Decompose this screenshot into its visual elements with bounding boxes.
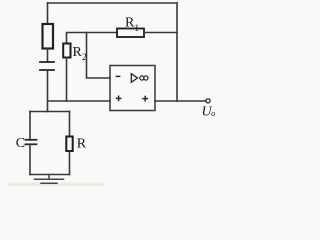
- op-amp plus mark (non-inverting, left): [116, 96, 122, 102]
- svg-text:C: C: [16, 136, 25, 151]
- wire: R2 top up and right to inverting node: [67, 33, 118, 44]
- op-amp plus mark (output side, right): [142, 96, 148, 102]
- wire: non-inverting input run: [48, 100, 111, 102]
- resistor (series, unlabeled): [43, 24, 54, 49]
- wire: R branch lower: [69, 151, 71, 175]
- svg-text:R: R: [77, 137, 87, 152]
- wire: output run to terminal: [155, 100, 206, 102]
- wire: right feedback column down to output node: [176, 3, 178, 101]
- resistor R2: [63, 44, 70, 58]
- ground: [35, 175, 64, 184]
- op-amp U1: [110, 66, 155, 111]
- wire: R2 bottom down to non-inverting run: [66, 58, 68, 102]
- op-amp infinity mark: [140, 76, 148, 80]
- faint scan smudge (bottom margin): [8, 183, 104, 187]
- op-amp gain symbol triangle: [131, 74, 137, 83]
- op-amp minus mark: [116, 75, 121, 77]
- wire: series capacitor down through +input node to tank top: [47, 70, 49, 112]
- wire: series resistor to series capacitor: [47, 49, 49, 63]
- wire: R1 right side to feedback column: [144, 32, 177, 34]
- capacitor C: [26, 140, 37, 145]
- wire: tank bottom run: [30, 174, 70, 176]
- resistor R: [66, 137, 72, 152]
- terminal Uo: [206, 99, 210, 103]
- wire: tank top run: [30, 111, 70, 113]
- capacitor (series, unlabeled): [40, 62, 54, 70]
- wire: top horizontal feedback run: [48, 2, 178, 4]
- wire: R branch upper: [69, 112, 71, 137]
- wire: top wire down into series resistor: [47, 3, 49, 24]
- resistor R1: [117, 29, 144, 38]
- wire: inverting input drop and into op-amp: [87, 33, 111, 79]
- wire: C branch lower: [29, 144, 31, 174]
- wire: C branch upper: [29, 112, 31, 141]
